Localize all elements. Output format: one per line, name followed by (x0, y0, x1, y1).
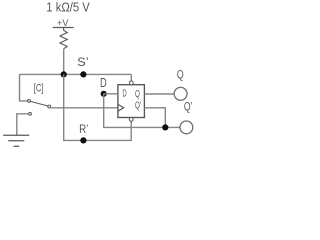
svg-text:D: D (100, 75, 107, 90)
svg-text:Q: Q (135, 89, 140, 100)
node S' dot (80, 71, 86, 77)
switch pole pivot contact (48, 105, 51, 108)
resistor R1 zigzag (60, 30, 67, 49)
svg-text:1 kΩ/5 V: 1 kΩ/5 V (46, 0, 90, 15)
ground symbol (3, 135, 29, 146)
svg-text:S’: S’ (77, 55, 89, 69)
svg-text:R’: R’ (79, 122, 88, 136)
svg-text:+V: +V (57, 18, 68, 28)
svg-text:[C]: [C] (34, 82, 44, 94)
terminal Q circle (174, 87, 187, 100)
wire bottom throw to ground (17, 114, 29, 135)
wire pole to clock input (51, 107, 118, 109)
terminal Q' circle (180, 121, 193, 134)
preset bubble (top) (129, 81, 133, 85)
switch top throw contact (28, 100, 31, 103)
junction dot resistor/S' rail (61, 71, 67, 77)
wire resistor bottom to S' rail (63, 49, 65, 75)
wire R' net: vertical from S' rail down, across, up to clear bubble (64, 74, 132, 140)
svg-text:Q: Q (177, 67, 184, 81)
svg-text:D: D (122, 89, 126, 100)
supply +V bar (53, 28, 74, 31)
wire S' horizontal rail (20, 73, 132, 75)
wire D node to D pin (104, 93, 118, 95)
wire left drop to switch top throw (20, 74, 28, 101)
junction dot Q'/D feedback (162, 124, 168, 130)
wire Q pin to Q terminal (144, 93, 174, 95)
clock triangle (118, 104, 124, 111)
wire Q' pin down to bottom wire (144, 108, 165, 128)
svg-text:Q’: Q’ (135, 101, 141, 112)
node D junction dot (101, 91, 107, 97)
switch blade (30, 101, 48, 106)
wire D node down and across to Q' terminal (104, 94, 181, 128)
switch bottom throw contact (29, 112, 32, 115)
node R' dot (80, 137, 86, 143)
flip-flop U1 box (118, 85, 144, 118)
svg-text:Q’: Q’ (184, 100, 193, 114)
clear bubble (bottom) (129, 118, 133, 122)
wire S' rail down to preset bubble (130, 74, 132, 81)
